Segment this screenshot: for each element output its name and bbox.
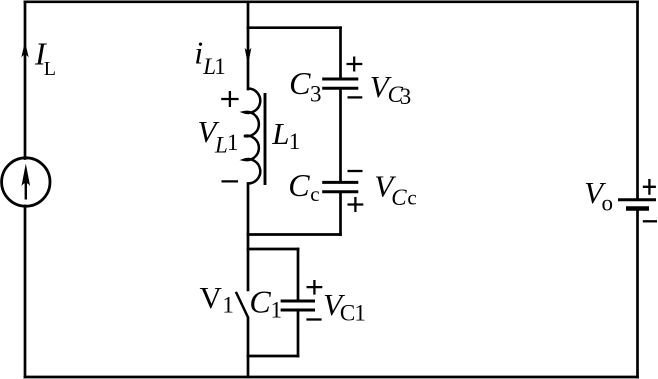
wire C1 branch lower vertical: [297, 311, 300, 356]
minus sign C3: [348, 96, 363, 98]
label VL1: [198, 114, 239, 158]
wire C1 branch upper vertical: [297, 249, 300, 300]
arrow iL1 on middle branch: [245, 48, 252, 65]
wire middle branch mid: [247, 184, 250, 290]
wire right rail upper: [636, 2, 639, 200]
wire between C3 and Cc: [339, 90, 342, 182]
svg-text:3: 3: [400, 84, 412, 109]
svg-text:1: 1: [271, 297, 283, 322]
wire right rail lower: [636, 209, 639, 378]
label Cc: [288, 167, 319, 206]
svg-text:c: c: [310, 182, 319, 206]
switch V1 blade: [236, 292, 249, 318]
minus sign Cc: [348, 170, 363, 172]
svg-text:o: o: [602, 191, 614, 216]
label VCc: [374, 169, 417, 210]
plus sign battery: [643, 179, 656, 195]
label C1: [249, 284, 282, 323]
wire C1 branch bottom horizontal: [248, 355, 298, 358]
wire left rail upper: [24, 2, 27, 159]
svg-text:3: 3: [310, 81, 322, 106]
current source circle: [2, 158, 50, 206]
plus sign Cc: [348, 197, 364, 212]
svg-text:i: i: [194, 35, 203, 71]
svg-text:1: 1: [214, 54, 226, 79]
capacitor Cc: [322, 182, 358, 191]
label C3: [289, 65, 321, 106]
label VC3: [370, 69, 412, 109]
wire C3 branch top horizontal: [248, 26, 341, 29]
svg-text:1: 1: [354, 301, 366, 326]
svg-text:V: V: [200, 280, 223, 315]
plus sign inductor top: [221, 91, 238, 107]
label IL: [34, 36, 56, 80]
svg-text:C: C: [289, 65, 311, 101]
inductor L1 coil: [244, 88, 260, 183]
arrow IL on left rail: [21, 42, 28, 58]
svg-text:1: 1: [222, 293, 234, 318]
capacitor C3: [322, 79, 358, 88]
svg-text:C: C: [288, 167, 310, 203]
svg-text:C: C: [340, 301, 355, 326]
wire middle branch lower: [247, 319, 250, 377]
svg-text:L: L: [214, 133, 228, 158]
label iL1: [194, 35, 226, 79]
wire bottom rail: [25, 376, 638, 379]
wire C1 branch top horizontal: [248, 248, 298, 251]
battery Vo long plate: [618, 198, 656, 201]
label Vo: [584, 175, 613, 216]
wire left rail lower: [24, 206, 27, 377]
svg-text:C: C: [249, 284, 271, 320]
svg-text:c: c: [407, 185, 416, 209]
wire top rail: [25, 0, 638, 3]
minus sign inductor bottom: [222, 180, 239, 182]
wire C3 branch upper vertical: [339, 28, 342, 78]
svg-text:L: L: [44, 58, 56, 80]
svg-text:C: C: [391, 185, 407, 210]
label V1: [200, 280, 234, 318]
label L1: [271, 116, 300, 154]
svg-text:1: 1: [289, 129, 301, 154]
minus sign battery: [643, 220, 657, 222]
capacitor C1: [281, 301, 315, 310]
inductor L1 core bar: [264, 93, 267, 185]
label VC1: [323, 287, 366, 326]
plus sign C1: [307, 280, 323, 295]
wire Cc branch bottom horizontal: [248, 233, 341, 236]
wire below Cc: [339, 193, 342, 235]
svg-text:L: L: [271, 116, 289, 151]
plus sign C3: [347, 57, 363, 72]
battery Vo short plate: [626, 206, 649, 211]
minus sign C1: [306, 318, 321, 320]
svg-text:1: 1: [227, 130, 239, 155]
wire middle branch upper: [247, 2, 250, 89]
current source arrow: [22, 164, 31, 200]
